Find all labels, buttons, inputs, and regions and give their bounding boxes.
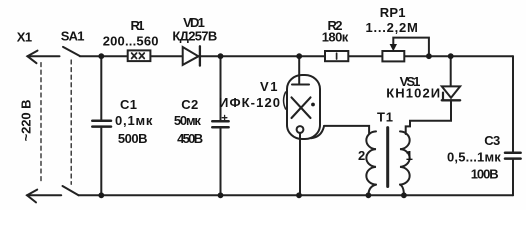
svg-text:50мк: 50мк [174,113,201,128]
svg-text:500В: 500В [118,131,148,146]
svg-text:КН102И: КН102И [386,86,440,101]
svg-text:1: 1 [406,148,413,163]
svg-text:ИФК-120: ИФК-120 [219,95,280,110]
svg-text:С3: С3 [484,133,500,148]
svg-text:180к: 180к [322,29,349,44]
svg-text:С1: С1 [120,97,137,112]
svg-text:С2: С2 [181,97,198,112]
svg-text:X1: X1 [17,30,32,45]
svg-text:RP1: RP1 [380,5,406,20]
svg-text:450В: 450В [177,131,203,146]
svg-text:100В: 100В [471,166,499,181]
svg-text:0,1мк: 0,1мк [115,113,153,128]
svg-text:Т1: Т1 [377,110,393,125]
svg-text:0,5...1мк: 0,5...1мк [447,150,501,165]
svg-text:200...560: 200...560 [103,33,159,48]
svg-text:SA1: SA1 [61,29,85,44]
svg-text:~220 В: ~220 В [19,99,34,141]
svg-text:1...2,2М: 1...2,2М [366,20,418,35]
svg-text:2: 2 [358,148,365,163]
svg-text:КД257В: КД257В [172,29,217,44]
svg-text:R1: R1 [131,18,145,33]
